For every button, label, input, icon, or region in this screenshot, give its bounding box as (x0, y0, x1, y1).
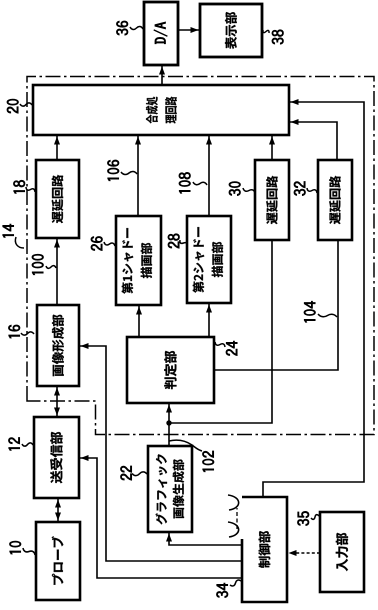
label 20 (7, 99, 32, 113)
block 34 controller (242, 497, 287, 602)
wire probe-transceiver (55, 498, 61, 522)
block 30 delay circuit (255, 160, 289, 240)
label 10 (9, 541, 35, 555)
wire delay-synth (54, 135, 60, 160)
wire controller-graphic (166, 532, 242, 545)
block 12 transmitter-receiver (34, 417, 79, 498)
wire delay32-synth (289, 119, 337, 160)
junction dot 102 (166, 420, 171, 425)
label 104 (304, 301, 337, 322)
wire DA-display (178, 27, 200, 33)
label 32 (294, 181, 317, 195)
wire controller-transceiver (79, 455, 242, 578)
wire shadow1-synth 106 (135, 135, 141, 216)
block 35 input unit (320, 512, 364, 592)
block 38 display (200, 4, 262, 57)
label 14 (3, 224, 24, 248)
block 26 first shadow drawer (116, 216, 161, 305)
wire transceiver-imageformer (54, 386, 60, 417)
label 100 (32, 254, 56, 275)
wire input-controller dashed (289, 550, 321, 556)
block 10 probe (36, 522, 80, 600)
label 35 (297, 511, 319, 525)
wire controller-imageformer (79, 343, 242, 561)
block 34 edge break (228, 495, 239, 537)
wire judger-shadow2 (206, 303, 212, 337)
block 28 second shadow drawer (187, 216, 231, 303)
label 102 (169, 440, 214, 472)
label 38 (263, 30, 283, 44)
block 18 delay circuit (36, 160, 79, 238)
label 16 (8, 325, 34, 338)
label 12 (8, 437, 33, 450)
wire shadow2-synth 108 (206, 135, 212, 216)
block 24 judger (127, 337, 214, 403)
wire delay30-synth (269, 135, 275, 160)
label 28 (168, 234, 187, 248)
wire judger-delay32 104 (214, 240, 338, 370)
wire graphic-judger 102 (166, 403, 172, 446)
label 106 (107, 160, 137, 181)
block 22 graphic image generator (148, 446, 192, 532)
label 108 (179, 172, 207, 193)
block 16 image former (37, 305, 79, 386)
wire junction-delay30 (169, 240, 272, 423)
dash-dot boundary 14 (27, 77, 374, 435)
label 26 (91, 236, 115, 250)
block 32 delay circuit (318, 160, 352, 240)
wire judger-shadow1 (136, 305, 142, 337)
label 36 (116, 21, 143, 35)
block 20 synthesis processing circuit (33, 85, 289, 135)
label 34 (216, 580, 241, 598)
label 30 (229, 182, 255, 196)
wire imageformer-delay 100 (54, 238, 60, 305)
wire controller-synth riser (263, 99, 364, 497)
label 18 (13, 180, 35, 193)
block 36 D/A converter (144, 2, 178, 65)
label 22 (120, 466, 147, 480)
wire synth-DA (159, 65, 165, 85)
label 24 (215, 341, 237, 355)
